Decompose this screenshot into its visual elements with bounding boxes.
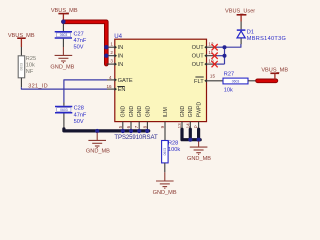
power flag VBUS_MB (top) xyxy=(51,8,78,22)
pin names left xyxy=(118,45,133,93)
svg-text:0603: 0603 xyxy=(20,63,24,71)
resistor R28 xyxy=(162,141,181,173)
wire VBUS_MB thick red (top) xyxy=(63,22,106,64)
svg-text:13: 13 xyxy=(177,123,182,129)
wire OUT pins to diode xyxy=(217,44,241,64)
svg-text:1: 1 xyxy=(110,42,113,47)
svg-text:8: 8 xyxy=(142,125,147,128)
pin numbers right xyxy=(208,41,215,78)
svg-text:GND: GND xyxy=(145,106,151,118)
svg-text:GATE: GATE xyxy=(118,78,133,84)
IC bottom GND pin stubs 5-8 xyxy=(123,122,148,130)
svg-text:15: 15 xyxy=(210,74,216,79)
svg-text:ILIM: ILIM xyxy=(163,107,169,117)
svg-text:OUT: OUT xyxy=(192,54,205,60)
svg-text:100k: 100k xyxy=(168,147,180,153)
svg-text:4: 4 xyxy=(109,75,112,80)
svg-text:14: 14 xyxy=(185,123,190,129)
svg-text:9: 9 xyxy=(160,125,165,128)
svg-text:0603: 0603 xyxy=(60,108,68,112)
no-connect X pin 11 xyxy=(212,53,218,59)
svg-text:IN: IN xyxy=(118,45,124,51)
svg-text:MBRS140T3G: MBRS140T3G xyxy=(247,36,286,42)
svg-text:47nF: 47nF xyxy=(74,112,87,118)
svg-text:7: 7 xyxy=(134,125,139,128)
pin names right xyxy=(192,45,205,85)
no-connect X pin 12 xyxy=(212,44,218,67)
svg-text:OUT: OUT xyxy=(192,62,205,68)
svg-text:GND: GND xyxy=(137,106,143,118)
junctions on GND wire xyxy=(121,129,125,133)
svg-text:C28: C28 xyxy=(74,106,84,112)
capacitor C27 xyxy=(55,23,87,50)
IC bottom pin numbers rotated xyxy=(118,123,199,129)
svg-text:0603: 0603 xyxy=(232,80,240,84)
svg-text:PWPD: PWPD xyxy=(197,101,203,117)
resistor R25 (NF, greyed) xyxy=(18,47,36,87)
svg-text:GND: GND xyxy=(129,106,135,118)
wire GND thick (bottom) xyxy=(64,129,149,131)
wire ILIM to R28 xyxy=(164,122,166,141)
IC bottom pin names rotated xyxy=(121,101,203,117)
svg-text:OUT: OUT xyxy=(192,45,205,51)
pin arrows right xyxy=(204,45,207,82)
ground GND_MB (bottom middle) xyxy=(88,133,106,148)
svg-text:IN: IN xyxy=(118,54,124,60)
svg-text:GND: GND xyxy=(188,106,194,118)
svg-text:R28: R28 xyxy=(168,141,178,147)
svg-text:GND: GND xyxy=(121,106,127,118)
svg-text:IN: IN xyxy=(118,62,124,68)
svg-text:10k: 10k xyxy=(26,62,35,68)
wire 321_ID to EN pin16 xyxy=(21,87,107,89)
svg-text:47nF: 47nF xyxy=(74,38,87,44)
svg-text:50V: 50V xyxy=(74,119,84,125)
svg-text:6: 6 xyxy=(126,125,131,128)
svg-text:GND_MB: GND_MB xyxy=(86,149,110,155)
svg-text:FLT: FLT xyxy=(194,79,204,85)
diode D1 MBRS140T3G xyxy=(237,22,286,45)
svg-text:VBUS_User: VBUS_User xyxy=(225,9,255,15)
svg-text:0603: 0603 xyxy=(163,148,167,156)
no-connect X pin 10 xyxy=(212,61,218,67)
wire GATE pin4 to C28 xyxy=(64,80,107,103)
svg-text:GND_MB: GND_MB xyxy=(153,190,177,196)
wire FLT thick red xyxy=(258,79,276,84)
ground GND_MB (right cluster) xyxy=(190,141,208,154)
svg-text:C27: C27 xyxy=(74,31,84,37)
junction node (VBUS / C27) xyxy=(61,20,65,24)
wire GND thick (right cluster) xyxy=(182,129,200,140)
svg-text:R25: R25 xyxy=(26,56,36,62)
IC bottom right pins 13,14,P stubs xyxy=(182,122,199,130)
svg-text:TPS25910RSAT: TPS25910RSAT xyxy=(114,135,158,141)
power flag VBUS_MB (left) xyxy=(8,33,35,47)
svg-text:2: 2 xyxy=(110,50,113,55)
IC U4 body xyxy=(115,39,207,121)
svg-text:GND_MB: GND_MB xyxy=(187,156,211,162)
power flag VBUS_User xyxy=(225,9,255,22)
capacitor C28 xyxy=(55,103,87,129)
svg-text:0603: 0603 xyxy=(60,33,68,37)
svg-text:GND: GND xyxy=(180,106,186,118)
ground GND_MB (under R28) xyxy=(156,172,174,188)
svg-text:U4: U4 xyxy=(114,33,122,40)
ground GND_MB (under C27) xyxy=(55,47,73,63)
IC right pin stubs xyxy=(207,47,224,81)
pin numbers left xyxy=(106,42,113,89)
svg-text:50V: 50V xyxy=(74,45,84,51)
svg-text:R27: R27 xyxy=(224,71,234,77)
svg-text:3: 3 xyxy=(110,59,113,64)
svg-text:5: 5 xyxy=(118,125,123,128)
junctions on red VBUS wire xyxy=(104,45,108,49)
resistor R27 xyxy=(223,71,258,93)
svg-text:EN: EN xyxy=(118,87,126,93)
svg-text:GND_MB: GND_MB xyxy=(50,64,74,70)
pin arrows left xyxy=(114,45,117,91)
svg-text:D1: D1 xyxy=(247,30,254,36)
svg-text:10k: 10k xyxy=(224,87,233,93)
svg-text:NF: NF xyxy=(26,69,34,75)
IC left pin stubs 1,2,3 xyxy=(106,47,115,89)
power flag VBUS_MB (right) xyxy=(261,68,288,80)
svg-text:16: 16 xyxy=(106,84,112,89)
